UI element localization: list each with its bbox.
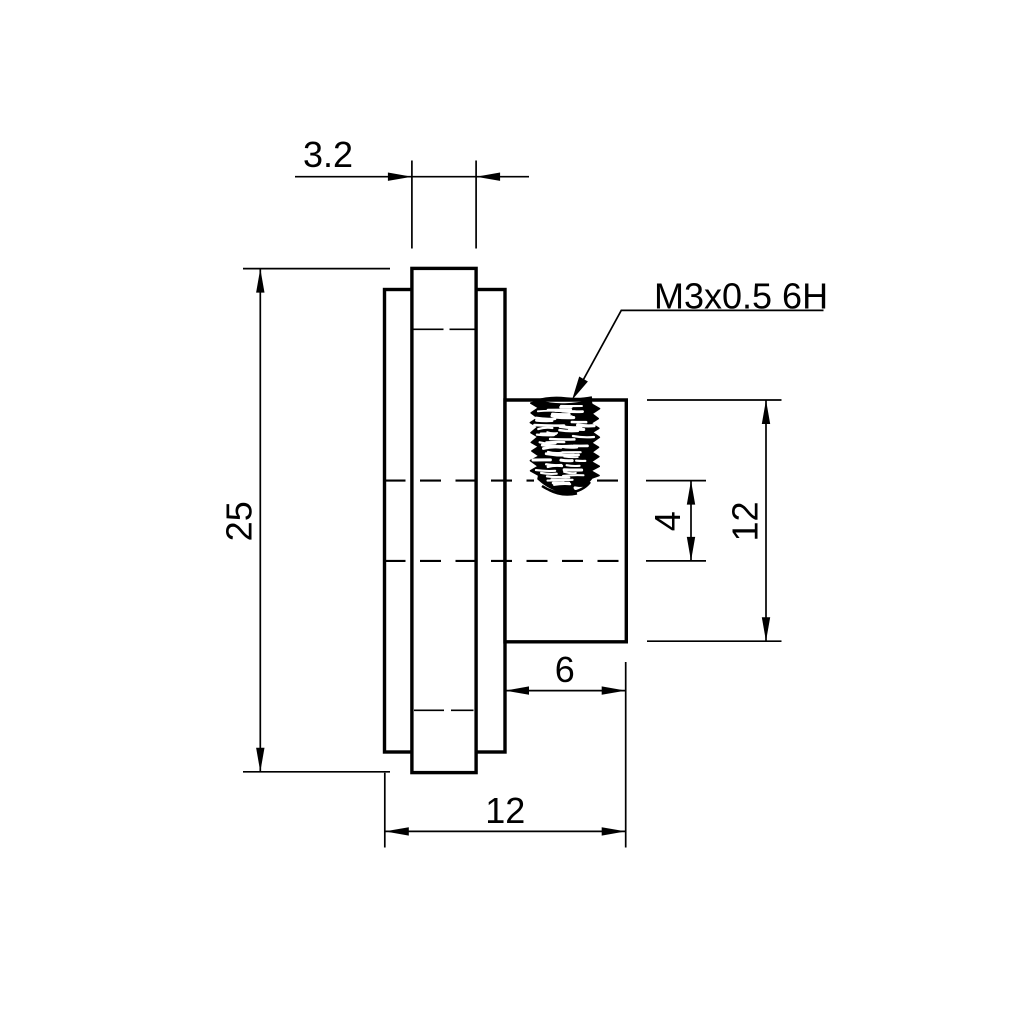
dimension 4 arrow top [687, 481, 695, 505]
dimension 25 text [219, 501, 260, 541]
dimension 12 bottom line [385, 830, 626, 832]
boss Ø12 outline [505, 400, 626, 642]
svg-text:12: 12 [485, 790, 525, 831]
dimension 4 text [647, 511, 688, 531]
dimension 4 arrow bottom [687, 537, 695, 561]
body Ø23 outline [385, 290, 506, 753]
dimension 4 extension lines [646, 481, 706, 561]
dimension 3.2 text [303, 134, 353, 175]
dimension 12 bottom arrow left [385, 827, 409, 835]
disc Ø25 outline [412, 268, 476, 772]
svg-text:12: 12 [725, 501, 766, 541]
svg-text:M3x0.5 6H: M3x0.5 6H [654, 275, 828, 316]
svg-text:4: 4 [647, 511, 688, 531]
hidden line bore lower [385, 560, 627, 562]
hidden line bore upper [385, 480, 627, 482]
dimension 12 right arrow top [762, 400, 770, 424]
dimension 12 right text [725, 501, 766, 541]
dimension 12 bottom extension line [384, 773, 386, 848]
leader M3x0.5 6H line [576, 310, 824, 394]
dimension 12 bottom arrow right [602, 827, 626, 835]
dimension 6 extension line [625, 662, 627, 848]
centerline disc upper [414, 328, 475, 330]
dimension 3.2 arrow left [388, 173, 412, 181]
dimension 25 extension lines [243, 269, 390, 772]
svg-text:3.2: 3.2 [303, 134, 353, 175]
dimension 12 right line [765, 400, 767, 641]
label M3x0.5 6H text [654, 275, 828, 316]
dimension 12 right arrow bottom [762, 617, 770, 641]
dimension 6 line [505, 690, 626, 692]
dimension 12 right extension lines [647, 400, 782, 641]
dimension 3.2 line [295, 176, 529, 178]
dimension 6 arrow right [602, 686, 626, 694]
dimension 6 arrow left [505, 686, 529, 694]
dimension 25 arrow top [256, 269, 264, 293]
centerline disc lower [414, 709, 474, 711]
svg-text:6: 6 [555, 649, 575, 690]
leader M3x0.5 6H arrow [572, 377, 588, 401]
dimension 25 line [259, 269, 261, 772]
svg-text:25: 25 [219, 501, 260, 541]
dimension 3.2 arrow right [476, 173, 500, 181]
dimension 25 arrow bottom [256, 748, 264, 772]
dimension 3.2 extension lines [412, 161, 476, 249]
thread M3 [530, 398, 599, 495]
dimension 4 line [690, 481, 692, 561]
dimension 6 text [555, 649, 575, 690]
dimension 12 bottom text [485, 790, 525, 831]
